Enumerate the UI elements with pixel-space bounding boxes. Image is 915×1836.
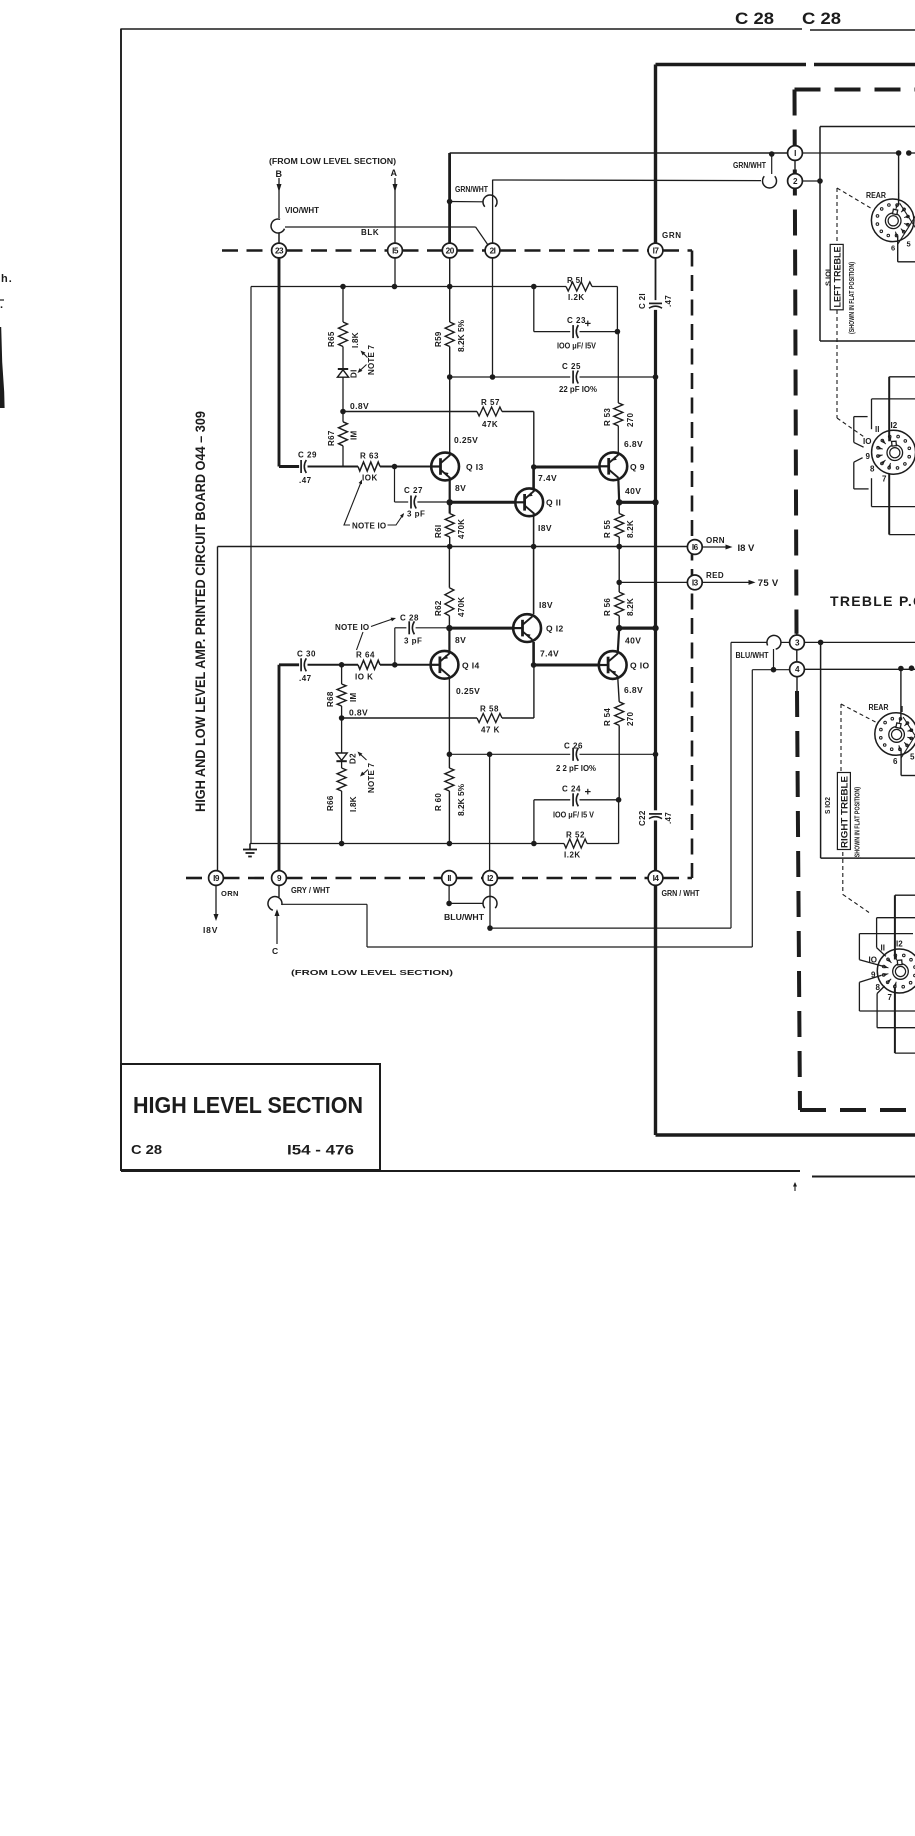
svg-text:8V: 8V: [455, 483, 466, 493]
svg-text:VIO/WHT: VIO/WHT: [285, 206, 319, 215]
svg-text:C: C: [272, 946, 278, 956]
svg-text:R59: R59: [434, 331, 443, 347]
svg-text:R68: R68: [326, 691, 335, 707]
svg-text:75 V: 75 V: [758, 578, 779, 589]
svg-text:LEFT TREBLE: LEFT TREBLE: [833, 247, 843, 308]
svg-text:D2: D2: [348, 753, 357, 764]
svg-text:.47: .47: [299, 674, 312, 683]
svg-text:8: 8: [870, 465, 875, 474]
svg-text:5: 5: [910, 753, 915, 762]
svg-text:S IO2: S IO2: [823, 797, 832, 814]
svg-text:BLU/WHT: BLU/WHT: [444, 913, 484, 922]
svg-text:.47: .47: [664, 295, 673, 307]
svg-text:GRN/WHT: GRN/WHT: [733, 161, 766, 170]
svg-text:ORN: ORN: [221, 889, 239, 898]
svg-text:C 2I: C 2I: [638, 293, 647, 309]
svg-text:20: 20: [446, 246, 455, 255]
svg-text:BLK: BLK: [361, 228, 379, 237]
svg-text:R6I: R6I: [434, 525, 443, 538]
svg-text:(FROM LOW LEVEL SECTION): (FROM LOW LEVEL SECTION): [269, 157, 396, 166]
svg-text:9: 9: [866, 452, 871, 461]
svg-text:6.8V: 6.8V: [624, 685, 643, 695]
svg-text:IO K: IO K: [355, 673, 373, 682]
svg-text:I: I: [901, 705, 903, 714]
svg-text:I2: I2: [896, 940, 903, 949]
svg-text:Q IO: Q IO: [630, 661, 650, 671]
svg-text:47K: 47K: [482, 420, 498, 429]
svg-text:(FROM LOW LEVEL SECTION): (FROM LOW LEVEL SECTION): [291, 968, 454, 977]
svg-text:I8V: I8V: [539, 600, 553, 610]
svg-text:7.4V: 7.4V: [540, 649, 559, 659]
svg-text:3 pF: 3 pF: [404, 637, 422, 646]
svg-text:I3: I3: [692, 578, 699, 587]
svg-text:NOTE 7: NOTE 7: [367, 345, 376, 375]
svg-text:Q I4: Q I4: [462, 661, 480, 671]
svg-text:R 63: R 63: [360, 452, 379, 461]
svg-text:Q II: Q II: [546, 498, 561, 508]
svg-text:I9: I9: [213, 874, 220, 883]
svg-text:5: 5: [907, 240, 911, 249]
svg-text:(SHOWN IN FLAT POSITION): (SHOWN IN FLAT POSITION): [853, 787, 862, 859]
svg-text:I.8K: I.8K: [351, 332, 360, 348]
svg-text:3 pF: 3 pF: [407, 510, 425, 519]
svg-text:I7: I7: [653, 246, 660, 255]
svg-text:R 53: R 53: [603, 408, 612, 426]
svg-text:270: 270: [626, 712, 635, 726]
svg-text:Q 9: Q 9: [630, 462, 645, 472]
svg-text:R62: R62: [434, 600, 443, 616]
svg-text:I6: I6: [692, 543, 699, 552]
svg-text:R 54: R 54: [603, 708, 612, 726]
svg-text:470K: 470K: [457, 597, 466, 617]
svg-text:R67: R67: [327, 430, 336, 446]
svg-text:HIGH AND LOW LEVEL AMP. PRINTE: HIGH AND LOW LEVEL AMP. PRINTED CIRCUIT …: [193, 411, 208, 812]
svg-text:.47: .47: [664, 812, 673, 824]
svg-text:470K: 470K: [457, 519, 466, 539]
svg-text:I: I: [898, 192, 900, 201]
svg-text:I54 - 476: I54 - 476: [287, 1142, 354, 1158]
svg-text:I: I: [794, 149, 796, 158]
svg-text:8V: 8V: [455, 635, 466, 645]
svg-text:(SHOWN IN FLAT POSITION): (SHOWN IN FLAT POSITION): [847, 262, 856, 334]
svg-text:C 29: C 29: [298, 451, 317, 460]
svg-text:R 5I: R 5I: [567, 276, 583, 285]
svg-text:C 28: C 28: [400, 614, 419, 623]
svg-text:IO: IO: [869, 956, 877, 965]
svg-text:GRN: GRN: [662, 231, 682, 240]
svg-text:II: II: [447, 874, 451, 883]
svg-text:8.2K 5%: 8.2K 5%: [457, 784, 466, 816]
svg-text:I.2K: I.2K: [564, 851, 581, 860]
svg-text:I5: I5: [392, 246, 399, 255]
svg-text:6: 6: [893, 757, 898, 766]
svg-text:47 K: 47 K: [481, 726, 500, 735]
svg-text:C 28: C 28: [131, 1142, 162, 1157]
svg-text:B: B: [276, 169, 283, 179]
svg-text:C 26: C 26: [564, 742, 583, 751]
svg-text:RED: RED: [706, 571, 724, 580]
svg-text:40V: 40V: [625, 636, 641, 646]
svg-text:ORN: ORN: [706, 536, 725, 545]
svg-text:IM: IM: [349, 692, 358, 702]
svg-text:7.4V: 7.4V: [538, 473, 557, 483]
svg-text:IM: IM: [349, 430, 358, 440]
svg-text:C 27: C 27: [404, 486, 423, 495]
svg-text:C 23: C 23: [567, 316, 586, 325]
svg-text:R 52: R 52: [566, 831, 585, 840]
svg-text:II: II: [875, 425, 879, 434]
svg-text:R 60: R 60: [434, 793, 443, 811]
svg-text:A: A: [391, 168, 398, 178]
svg-text:BLU/WHT: BLU/WHT: [736, 651, 769, 660]
svg-text:R66: R66: [326, 795, 335, 811]
svg-text:IOK: IOK: [362, 474, 378, 483]
svg-text:6.8V: 6.8V: [624, 439, 643, 449]
svg-text:HIGH LEVEL SECTION: HIGH LEVEL SECTION: [133, 1092, 363, 1118]
svg-text:GRN/WHT: GRN/WHT: [455, 185, 488, 194]
svg-text:6: 6: [891, 244, 895, 253]
svg-text:7: 7: [888, 993, 893, 1002]
svg-text:C 25: C 25: [562, 362, 581, 371]
svg-text:2I: 2I: [490, 246, 496, 255]
svg-text:IOO μF/ I5 V: IOO μF/ I5 V: [553, 811, 595, 820]
svg-text:R 57: R 57: [481, 398, 500, 407]
svg-text:I.8K: I.8K: [349, 796, 358, 812]
svg-text:REAR: REAR: [866, 191, 886, 200]
svg-text:0.8V: 0.8V: [350, 401, 369, 411]
svg-text:TREBLE P.C: TREBLE P.C: [830, 593, 915, 609]
svg-text:0.8V: 0.8V: [349, 708, 368, 718]
svg-text:270: 270: [626, 413, 635, 427]
svg-text:C 28: C 28: [735, 10, 774, 28]
svg-text:22 pF IO%: 22 pF IO%: [559, 385, 597, 394]
svg-text:I8 V: I8 V: [738, 543, 756, 554]
svg-text:S IOI: S IOI: [824, 269, 833, 286]
svg-text:R 55: R 55: [603, 520, 612, 538]
svg-text:C22: C22: [638, 810, 647, 826]
svg-text:I2: I2: [891, 421, 898, 430]
svg-text:I8V: I8V: [538, 523, 552, 533]
svg-text:R 56: R 56: [603, 598, 612, 616]
svg-text:R65: R65: [327, 331, 336, 347]
svg-text:7: 7: [882, 475, 887, 484]
svg-text:REAR: REAR: [869, 703, 889, 712]
svg-text:GRY / WHT: GRY / WHT: [291, 886, 330, 895]
svg-text:8.2K 5%: 8.2K 5%: [457, 320, 466, 352]
svg-text:GRN / WHT: GRN / WHT: [662, 889, 700, 898]
svg-text:R 58: R 58: [480, 705, 499, 714]
svg-text:DI: DI: [350, 369, 359, 378]
svg-text:.: .: [0, 299, 4, 311]
svg-text:0.25V: 0.25V: [456, 686, 480, 696]
svg-text:C 24: C 24: [562, 785, 581, 794]
svg-text:h.: h.: [1, 273, 13, 285]
svg-text:I4: I4: [653, 874, 660, 883]
svg-text:8.2K: 8.2K: [626, 598, 635, 616]
svg-text:2 2 pF IO%: 2 2 pF IO%: [556, 764, 596, 773]
svg-text:C 30: C 30: [297, 650, 316, 659]
svg-text:8: 8: [876, 983, 881, 992]
svg-text:NOTE IO: NOTE IO: [335, 623, 369, 632]
svg-text:R 64: R 64: [356, 651, 375, 660]
svg-text:0.25V: 0.25V: [454, 435, 478, 445]
svg-text:II: II: [881, 944, 885, 953]
svg-text:.47: .47: [299, 476, 312, 485]
svg-text:I2: I2: [487, 874, 494, 883]
svg-text:I.2K: I.2K: [568, 293, 585, 302]
svg-text:NOTE 7: NOTE 7: [367, 763, 376, 793]
svg-text:Q I2: Q I2: [546, 624, 564, 634]
svg-text:RIGHT TREBLE: RIGHT TREBLE: [840, 776, 850, 848]
svg-text:9: 9: [871, 971, 876, 980]
svg-text:IO: IO: [863, 437, 871, 446]
svg-text:40V: 40V: [625, 486, 641, 496]
svg-text:8.2K: 8.2K: [626, 520, 635, 538]
svg-text:I8V: I8V: [203, 925, 218, 935]
svg-text:Q I3: Q I3: [466, 462, 484, 472]
svg-text:C 28: C 28: [802, 10, 841, 28]
svg-text:IOO μF/ I5V: IOO μF/ I5V: [557, 342, 597, 351]
svg-text:23: 23: [275, 246, 284, 255]
svg-text:NOTE IO: NOTE IO: [352, 522, 386, 531]
